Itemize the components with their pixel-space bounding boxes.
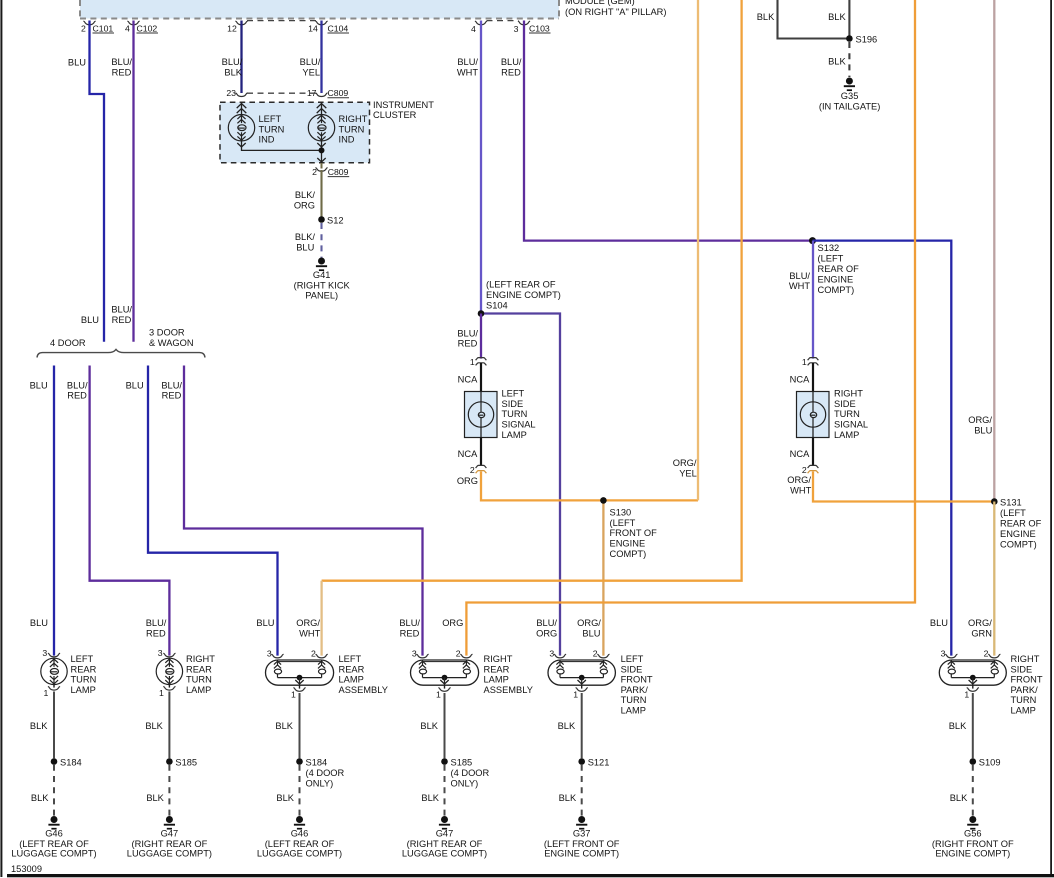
svg-text:TURN: TURN xyxy=(502,409,528,419)
svg-text:ASSEMBLY: ASSEMBLY xyxy=(484,685,533,695)
svg-text:NCA: NCA xyxy=(458,449,478,459)
wire BLU 3-door (to left rear lamp assembly) xyxy=(148,366,278,656)
label RIGHT SIDE TURN SIGNAL LAMP xyxy=(834,389,868,440)
wire BLU/RED (S104 down to connector 1) xyxy=(480,314,482,359)
label BLU/RED lamp2 xyxy=(146,618,167,638)
svg-text:G56: G56 xyxy=(964,829,982,839)
svg-text:2: 2 xyxy=(81,23,86,33)
svg-text:1: 1 xyxy=(44,688,49,698)
svg-text:(4 DOOR: (4 DOOR xyxy=(451,768,490,778)
label LEFT TURN IND xyxy=(259,114,285,145)
wire ORG (left side lamp to S130 to ORG/YEL corner) xyxy=(481,471,698,500)
svg-text:1: 1 xyxy=(964,689,969,699)
svg-text:BLK: BLK xyxy=(559,793,577,803)
wire BLK dashed to G37 xyxy=(581,765,583,816)
svg-text:12: 12 xyxy=(227,23,237,33)
svg-text:1: 1 xyxy=(470,357,475,367)
svg-text:TURN: TURN xyxy=(834,409,860,419)
svg-text:G47: G47 xyxy=(161,829,179,839)
ground G46 4-door xyxy=(257,816,342,858)
inline connector 2 right xyxy=(802,465,819,475)
svg-text:G37: G37 xyxy=(573,829,591,839)
svg-text:G41: G41 xyxy=(313,270,331,280)
svg-text:S132: S132 xyxy=(818,243,840,253)
wire ORG/GRN (S131 to lamp 6 pin 2) xyxy=(993,502,995,656)
svg-text:LAMP: LAMP xyxy=(1011,706,1036,716)
connector C103 pin 4 cup xyxy=(471,21,487,34)
svg-text:BLU/: BLU/ xyxy=(536,618,557,628)
svg-text:SIGNAL: SIGNAL xyxy=(502,420,536,430)
svg-text:ORG/: ORG/ xyxy=(577,618,601,628)
svg-text:LUGGAGE COMPT): LUGGAGE COMPT) xyxy=(402,848,487,858)
label BLU/RED xyxy=(111,57,132,77)
svg-text:BLU/: BLU/ xyxy=(300,57,321,67)
lamp RIGHT TURN IND xyxy=(308,115,334,141)
connector C104 bracket xyxy=(247,20,316,22)
svg-text:TURN: TURN xyxy=(259,124,285,134)
inline connector 2 left xyxy=(470,465,487,475)
svg-text:RED: RED xyxy=(400,628,420,638)
wire ORG/WHT drop to lamp 3 pin 2 xyxy=(320,581,322,656)
lamp RIGHT SIDE FRONT PARK/TURN LAMP xyxy=(939,648,1006,699)
svg-text:S130: S130 xyxy=(610,508,632,518)
svg-text:BLU: BLU xyxy=(68,57,86,67)
wire ORG/WHT vertical (top to left rear lamp assembly pin 2) xyxy=(322,0,742,581)
svg-text:(LEFT: (LEFT xyxy=(818,254,844,264)
svg-text:G46: G46 xyxy=(291,829,309,839)
svg-text:2: 2 xyxy=(311,648,316,658)
connector C809 bracket xyxy=(247,92,316,94)
ground G37 xyxy=(544,816,620,858)
svg-text:ORG/: ORG/ xyxy=(787,475,811,485)
svg-text:3: 3 xyxy=(158,648,163,658)
svg-text:BLK: BLK xyxy=(950,793,968,803)
svg-text:CLUSTER: CLUSTER xyxy=(373,110,417,120)
wire BLU/RED 4-door (to right rear turn lamp) xyxy=(90,366,170,656)
svg-text:S185: S185 xyxy=(451,757,473,767)
svg-text:GRN: GRN xyxy=(971,628,992,638)
wire BLK lamp1 to S184 xyxy=(53,692,55,759)
svg-text:NCA: NCA xyxy=(790,374,810,384)
svg-text:S121: S121 xyxy=(588,757,610,767)
svg-text:BLK: BLK xyxy=(145,721,163,731)
cluster exit arrow xyxy=(317,158,325,162)
wire BLU/WHT (S132 down to connector 1) xyxy=(812,241,814,359)
svg-text:REAR: REAR xyxy=(71,664,97,674)
lamp LEFT SIDE FRONT PARK/TURN LAMP xyxy=(548,648,615,699)
svg-text:NCA: NCA xyxy=(790,449,810,459)
instrument cluster label xyxy=(373,100,434,120)
svg-text:ORG: ORG xyxy=(294,200,315,210)
svg-text:(LEFT: (LEFT xyxy=(610,518,636,528)
lamp LEFT SIDE TURN SIGNAL LAMP xyxy=(468,392,493,438)
svg-text:BLK: BLK xyxy=(30,721,48,731)
svg-text:1: 1 xyxy=(573,689,578,699)
svg-text:(ON RIGHT "A" PILLAR): (ON RIGHT "A" PILLAR) xyxy=(565,7,666,17)
svg-text:C809: C809 xyxy=(328,167,349,177)
wire BLU/RED (GEM pin 4 to branch) xyxy=(132,21,134,342)
svg-text:BLK: BLK xyxy=(421,793,439,803)
cluster internal bus wire xyxy=(242,141,322,163)
svg-text:ORG/: ORG/ xyxy=(968,618,992,628)
wire BLK lamp3 to S184 xyxy=(299,693,301,758)
svg-text:S196: S196 xyxy=(856,34,878,44)
wire BLU/RED 3-door (to right rear lamp assembly) xyxy=(184,366,423,656)
svg-text:ONLY): ONLY) xyxy=(306,779,334,789)
wire BLK lamp6 to S109 xyxy=(972,693,974,758)
svg-text:ORG: ORG xyxy=(457,476,478,486)
svg-text:S184: S184 xyxy=(60,757,82,767)
svg-text:(RIGHT REAR OF: (RIGHT REAR OF xyxy=(407,839,483,849)
label BLU/RED above branch xyxy=(111,305,132,326)
wire BLU/RED (GEM pin 3 to S132) xyxy=(524,21,813,241)
svg-text:TURN: TURN xyxy=(71,675,97,685)
svg-text:G46: G46 xyxy=(45,829,63,839)
svg-text:BLU: BLU xyxy=(296,243,314,253)
svg-text:REAR: REAR xyxy=(484,664,510,674)
svg-text:LUGGAGE COMPT): LUGGAGE COMPT) xyxy=(127,848,212,858)
svg-text:S131: S131 xyxy=(1000,498,1022,508)
wire BLK dashed to G46 xyxy=(53,765,55,816)
lamp RIGHT REAR LAMP ASSEMBLY xyxy=(411,648,479,699)
svg-text:2: 2 xyxy=(802,465,807,475)
wire BLK dashed to G47 xyxy=(168,765,170,816)
wire NCA upper right xyxy=(812,363,814,392)
svg-text:2: 2 xyxy=(593,648,598,658)
svg-text:S104: S104 xyxy=(486,300,508,310)
lamp RIGHT REAR TURN LAMP xyxy=(156,648,182,698)
left lamp lower chevron xyxy=(237,143,245,147)
svg-text:S185: S185 xyxy=(175,757,197,767)
svg-text:BLU/: BLU/ xyxy=(399,618,420,628)
lamp LEFT REAR LAMP ASSEMBLY xyxy=(266,648,334,699)
svg-text:BLU: BLU xyxy=(582,628,600,638)
svg-text:C103: C103 xyxy=(529,23,550,33)
svg-text:BLU: BLU xyxy=(81,315,99,325)
svg-text:LAMP: LAMP xyxy=(186,685,211,695)
svg-text:ENGINE COMPT): ENGINE COMPT) xyxy=(544,848,619,858)
svg-text:BLU: BLU xyxy=(126,381,144,391)
connector C102 pin 4 cup xyxy=(125,21,158,33)
wire BLU (S132 to right side front park lamp pin 3) xyxy=(813,241,952,656)
connector C103 bracket xyxy=(487,20,519,22)
cluster junction node xyxy=(319,147,325,153)
label S131 location xyxy=(1000,498,1042,550)
wire NCA upper left xyxy=(480,363,482,392)
GEM module label xyxy=(565,0,666,17)
ground G47 xyxy=(127,816,212,858)
svg-text:RIGHT: RIGHT xyxy=(834,389,863,399)
splice S130 xyxy=(600,497,607,504)
wire BLU/YEL (GEM pin 14 to cluster 17) xyxy=(320,21,322,94)
svg-text:RIGHT: RIGHT xyxy=(339,114,368,124)
label BLU/BLK xyxy=(222,57,243,77)
inline connector 1 left xyxy=(470,357,487,367)
entry arrow right xyxy=(317,102,327,115)
svg-text:ENGINE: ENGINE xyxy=(610,539,646,549)
svg-text:REAR: REAR xyxy=(339,664,365,674)
svg-text:LEFT: LEFT xyxy=(339,654,362,664)
svg-text:2: 2 xyxy=(312,167,317,177)
label BLU/YEL xyxy=(300,57,321,77)
svg-text:RIGHT: RIGHT xyxy=(186,654,215,664)
label LEFT SIDE TURN SIGNAL LAMP xyxy=(502,389,536,440)
svg-text:WHT: WHT xyxy=(299,628,320,638)
splice S185 4-door xyxy=(441,757,489,788)
entry arrow left xyxy=(237,102,247,115)
wire ORG/BLU (S130 down to lamp 5 pin 2) xyxy=(602,500,604,655)
svg-text:WHT: WHT xyxy=(790,486,811,496)
label S104 location xyxy=(486,279,561,310)
splice S109 xyxy=(970,757,1001,767)
svg-text:LUGGAGE COMPT): LUGGAGE COMPT) xyxy=(257,848,342,858)
svg-text:BLU: BLU xyxy=(974,426,992,436)
svg-text:G47: G47 xyxy=(436,829,454,839)
svg-text:LEFT: LEFT xyxy=(71,654,94,664)
splice S132 xyxy=(809,237,816,244)
svg-text:1: 1 xyxy=(802,357,807,367)
label ORG/WHT xyxy=(787,475,811,496)
svg-text:BLK: BLK xyxy=(828,57,846,67)
svg-text:ORG: ORG xyxy=(442,618,463,628)
wire ORG/WHT (right side lamp to S131) xyxy=(813,471,994,501)
svg-text:C101: C101 xyxy=(93,23,114,33)
label BLU/RED xyxy=(161,380,182,400)
svg-text:(LEFT REAR OF: (LEFT REAR OF xyxy=(19,839,89,849)
connector C809 pin 17 cup xyxy=(307,88,349,98)
label BLU/RED lamp4 pin3 xyxy=(399,618,420,638)
svg-text:(RIGHT REAR OF: (RIGHT REAR OF xyxy=(132,839,208,849)
svg-text:RED: RED xyxy=(501,67,521,77)
svg-text:4 DOOR: 4 DOOR xyxy=(50,338,86,348)
svg-text:INSTRUMENT: INSTRUMENT xyxy=(373,100,434,110)
label BLU/RED xyxy=(67,380,88,400)
svg-text:23: 23 xyxy=(226,88,236,98)
svg-text:YEL: YEL xyxy=(679,469,697,479)
svg-text:IND: IND xyxy=(339,135,355,145)
svg-text:BLU/: BLU/ xyxy=(457,57,478,67)
svg-text:2: 2 xyxy=(984,648,989,658)
left side turn signal lamp box xyxy=(465,392,498,438)
label BLK/BLU xyxy=(295,232,316,253)
svg-text:RED: RED xyxy=(112,315,132,325)
svg-text:(LEFT FRONT OF: (LEFT FRONT OF xyxy=(544,839,620,849)
svg-text:BLK: BLK xyxy=(31,793,49,803)
svg-text:LEFT: LEFT xyxy=(621,654,644,664)
svg-text:RED: RED xyxy=(146,628,166,638)
connector C809 pin 23 cup xyxy=(226,88,247,98)
label ORG/BLU xyxy=(968,415,992,436)
frame left border xyxy=(0,0,2,877)
svg-text:BLU/: BLU/ xyxy=(501,57,522,67)
svg-text:3 DOOR: 3 DOOR xyxy=(149,328,185,338)
wire ORG/BLU pale vertical from top xyxy=(993,0,995,502)
svg-text:SIGNAL: SIGNAL xyxy=(834,420,868,430)
svg-text:ENGINE COMPT): ENGINE COMPT) xyxy=(486,290,561,300)
svg-text:BLK: BLK xyxy=(949,721,967,731)
svg-text:1: 1 xyxy=(159,688,164,698)
svg-text:S12: S12 xyxy=(327,215,344,225)
svg-text:BLU: BLU xyxy=(256,618,274,628)
lamp LEFT TURN IND xyxy=(228,115,254,141)
wire ORG/YEL vertical from top xyxy=(697,0,699,500)
cluster exit stub wire xyxy=(321,163,323,169)
label ORG/WHT lamp3 pin2 xyxy=(296,618,320,638)
svg-text:C102: C102 xyxy=(137,23,158,33)
connector C101 pin 2 cup xyxy=(81,21,114,33)
body style brace xyxy=(37,349,205,357)
svg-text:G35: G35 xyxy=(841,91,859,101)
svg-text:LAMP: LAMP xyxy=(502,430,527,440)
wire BLU 4-door (to left rear turn lamp) xyxy=(53,366,55,656)
right lamp lower chevron xyxy=(317,143,325,147)
svg-text:4: 4 xyxy=(471,24,476,34)
svg-text:LEFT: LEFT xyxy=(259,114,282,124)
svg-text:C104: C104 xyxy=(328,23,349,33)
ground G46 xyxy=(11,816,96,858)
frame bottom bar xyxy=(7,874,1054,877)
wire BLK/BLU dashed (S12 to G41) xyxy=(320,223,322,258)
svg-text:WHT: WHT xyxy=(789,281,810,291)
svg-text:ORG/: ORG/ xyxy=(673,458,697,468)
svg-text:BLU/: BLU/ xyxy=(146,618,167,628)
svg-text:ASSEMBLY: ASSEMBLY xyxy=(339,685,388,695)
svg-text:MODULE (GEM): MODULE (GEM) xyxy=(565,0,635,6)
svg-text:TURN: TURN xyxy=(186,675,212,685)
ground G56 xyxy=(932,816,1014,858)
svg-text:COMPT): COMPT) xyxy=(610,549,647,559)
connector C809 pin 2 cup xyxy=(312,167,349,177)
GEM module box (cut off at top) xyxy=(80,0,559,19)
svg-text:YEL: YEL xyxy=(302,67,320,77)
svg-text:TURN: TURN xyxy=(1011,695,1037,705)
svg-text:(LEFT REAR OF: (LEFT REAR OF xyxy=(265,839,335,849)
label LEFT REAR TURN LAMP xyxy=(71,654,97,695)
svg-text:BLK: BLK xyxy=(275,721,293,731)
svg-text:SIDE: SIDE xyxy=(502,399,524,409)
svg-text:FRONT OF: FRONT OF xyxy=(610,528,658,538)
wire BLU/WHT (GEM pin 4 to S104) xyxy=(480,21,482,314)
svg-text:BLU/: BLU/ xyxy=(67,380,88,390)
svg-text:SIDE: SIDE xyxy=(621,664,643,674)
svg-text:RED: RED xyxy=(458,339,478,349)
connector C104 pin 12 cup xyxy=(227,21,247,33)
ground G47 4-door xyxy=(402,816,487,858)
label BLU/ORG lamp5 pin3 xyxy=(536,618,557,638)
svg-text:ONLY): ONLY) xyxy=(451,779,479,789)
wire BLK dashed to G47 xyxy=(444,765,446,816)
svg-text:WHT: WHT xyxy=(457,67,478,77)
splice S104 xyxy=(478,310,485,317)
svg-text:COMPT): COMPT) xyxy=(818,285,855,295)
splice S196 xyxy=(846,34,877,44)
label BLU/RED xyxy=(457,328,478,348)
svg-text:BLK: BLK xyxy=(757,12,775,22)
wire BLK lamp2 to S185 xyxy=(168,692,170,759)
label S132 location xyxy=(818,243,860,295)
svg-text:FRONT: FRONT xyxy=(621,675,653,685)
svg-text:3: 3 xyxy=(412,648,417,658)
svg-text:NCA: NCA xyxy=(458,374,478,384)
label RIGHT REAR LAMP ASSEMBLY xyxy=(484,654,533,695)
svg-text:& WAGON: & WAGON xyxy=(149,338,194,348)
lamp LEFT REAR TURN LAMP xyxy=(41,648,67,698)
svg-text:BLK: BLK xyxy=(828,12,846,22)
svg-text:BLK: BLK xyxy=(146,793,164,803)
ground G41 xyxy=(294,258,351,301)
svg-text:PARK/: PARK/ xyxy=(1011,685,1039,695)
ground G35 xyxy=(819,78,880,112)
svg-text:BLU: BLU xyxy=(30,618,48,628)
wire BLK lamp5 to S121 xyxy=(581,693,583,758)
label ORG/GRN lamp6 pin2 xyxy=(968,618,992,638)
svg-text:S109: S109 xyxy=(979,757,1001,767)
svg-text:ENGINE: ENGINE xyxy=(1000,529,1036,539)
svg-text:3: 3 xyxy=(549,648,554,658)
label LEFT SIDE FRONT PARK/TURN LAMP xyxy=(621,654,653,716)
svg-text:SIDE: SIDE xyxy=(834,399,856,409)
wire ORG vertical (top to right rear lamp assembly pin 2) xyxy=(466,0,915,656)
label BLU/WHT xyxy=(789,271,811,291)
wire BLK/ORG (cluster to S12) xyxy=(320,170,322,220)
splice S121 xyxy=(578,757,609,767)
svg-text:TURN: TURN xyxy=(339,124,365,134)
svg-text:BLK: BLK xyxy=(420,721,438,731)
svg-text:3: 3 xyxy=(514,24,519,34)
svg-text:3: 3 xyxy=(267,648,272,658)
wire BLU/ORG branch (S104 to left side front park lamp pin 3) xyxy=(481,314,560,656)
svg-text:BLU: BLU xyxy=(930,618,948,628)
frame right border xyxy=(1050,0,1052,875)
svg-text:REAR: REAR xyxy=(186,664,212,674)
svg-text:LAMP: LAMP xyxy=(484,675,509,685)
svg-text:RED: RED xyxy=(67,391,87,401)
label BLK/ORG xyxy=(294,190,316,211)
svg-text:1: 1 xyxy=(291,689,296,699)
svg-text:(LEFT: (LEFT xyxy=(1000,508,1026,518)
svg-text:BLK: BLK xyxy=(276,793,294,803)
connector C103 pin 3 cup xyxy=(514,21,551,34)
right side turn signal lamp box xyxy=(797,392,830,438)
wire BLK dashed (S196 to G35) xyxy=(848,42,850,77)
wire BLK dashed to G46 xyxy=(299,765,301,816)
label RIGHT REAR TURN LAMP xyxy=(186,654,215,695)
instrument cluster box xyxy=(220,102,370,162)
splice S184 xyxy=(51,757,82,767)
svg-text:IND: IND xyxy=(259,135,275,145)
svg-text:BLU: BLU xyxy=(30,381,48,391)
svg-text:C809: C809 xyxy=(328,88,349,98)
svg-text:REAR OF: REAR OF xyxy=(1000,519,1042,529)
svg-text:REAR OF: REAR OF xyxy=(818,264,860,274)
svg-text:4: 4 xyxy=(125,23,130,33)
connector C104 pin 14 cup xyxy=(308,21,349,33)
svg-text:ORG/: ORG/ xyxy=(968,415,992,425)
svg-text:RIGHT: RIGHT xyxy=(1011,654,1040,664)
wire BLK dashed to G56 xyxy=(972,765,974,816)
svg-text:ENGINE: ENGINE xyxy=(818,275,854,285)
svg-text:BLU/: BLU/ xyxy=(111,57,132,67)
svg-text:BLK/: BLK/ xyxy=(295,190,316,200)
wire NCA lower left xyxy=(480,438,482,467)
svg-text:(RIGHT FRONT OF: (RIGHT FRONT OF xyxy=(932,839,1014,849)
svg-text:ORG/: ORG/ xyxy=(296,618,320,628)
svg-text:153009: 153009 xyxy=(11,864,42,874)
label S130 location xyxy=(610,508,658,559)
label RIGHT SIDE FRONT PARK/TURN LAMP xyxy=(1011,654,1043,716)
svg-text:ENGINE COMPT): ENGINE COMPT) xyxy=(935,848,1010,858)
svg-text:ORG: ORG xyxy=(536,628,557,638)
